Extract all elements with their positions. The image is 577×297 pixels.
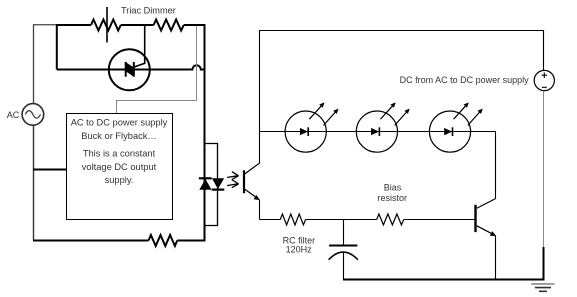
wire: LED string rail <box>259 131 496 133</box>
resistor R5 (bias) <box>377 214 404 225</box>
resistor R1 (dimmer pot) <box>91 20 121 31</box>
opto LED D1 (up) <box>199 178 212 190</box>
wire: outer AC loop top segment <box>34 25 58 104</box>
wire: branch from AC loop to supply box <box>33 169 67 171</box>
transistor Q2 <box>476 199 497 237</box>
svg-text:120Hz: 120Hz <box>286 245 313 255</box>
svg-text:Buck or Flyback…: Buck or Flyback… <box>81 131 156 141</box>
resistor R3 (bottom) <box>149 235 178 246</box>
phototransistor Q1 <box>244 163 260 200</box>
supply box text <box>71 118 168 185</box>
svg-text:AC to DC power supply: AC to DC power supply <box>71 118 168 128</box>
wire: collector to LED string <box>495 132 497 199</box>
wire: right circuit top <box>260 31 544 164</box>
triac gate wire <box>134 25 145 67</box>
svg-text:voltage DC output: voltage DC output <box>82 162 157 172</box>
resistor R4 (RC filter) <box>280 214 305 225</box>
wire: RC / bias line <box>260 219 475 221</box>
wire: outer AC loop below source <box>33 125 35 239</box>
wire: bottom right rail <box>343 247 544 280</box>
svg-text:resistor: resistor <box>378 193 408 203</box>
wire: dimmer loop left side <box>56 25 58 70</box>
wire: triac horizontal with hop over connector <box>57 65 205 69</box>
ground <box>531 284 554 291</box>
wire: top dimmer rail <box>56 24 206 26</box>
pot wiper line <box>106 7 108 43</box>
svg-text:This is a constant: This is a constant <box>83 149 156 159</box>
svg-text:DC from AC to DC power supply: DC from AC to DC power supply <box>400 75 530 85</box>
svg-text:Bias: Bias <box>384 183 402 193</box>
wire: phototransistor emitter to RC line <box>259 200 261 220</box>
LED D4 <box>356 102 409 152</box>
wire: emitter to bottom rail <box>495 236 497 280</box>
capacitor C1 <box>329 220 358 281</box>
wire: gray connector DC source to ground <box>543 91 545 247</box>
wire: gray connector top wire to supply box <box>117 26 197 114</box>
triac symbol <box>126 62 134 77</box>
svg-text:supply.: supply. <box>105 175 134 185</box>
wire: opto LED loop <box>205 144 218 226</box>
LED D5 <box>429 102 482 152</box>
DC source V2 <box>534 70 554 90</box>
supply box <box>67 114 173 220</box>
wire: bottom left rail <box>33 240 206 242</box>
wire: right dimmer rail / opto LED rail <box>204 25 206 242</box>
opto LED D2 (down) <box>212 178 225 189</box>
svg-text:AC: AC <box>7 110 20 120</box>
resistor R2 <box>154 20 184 31</box>
triac U1 circle <box>109 49 150 90</box>
svg-text:Triac Dimmer: Triac Dimmer <box>121 5 176 15</box>
LED D3 <box>285 102 338 152</box>
AC source V1 <box>22 104 44 126</box>
opto light arrows <box>228 172 239 188</box>
